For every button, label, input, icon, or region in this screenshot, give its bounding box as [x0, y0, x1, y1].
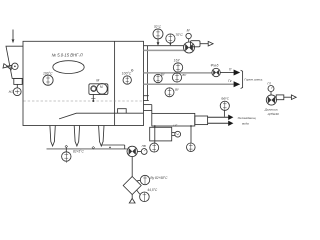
svg-text:44,5°С: 44,5°С [147, 188, 157, 192]
collection pipe [47, 145, 127, 149]
skimmer drive M-box [89, 79, 108, 95]
feed inlet arrow [12, 30, 15, 44]
cooling pipe 2 + arrow [208, 121, 234, 126]
tank bottom hopper legs (3) [50, 126, 104, 147]
instrument ВУ c6 [165, 87, 180, 96]
arrow П [220, 68, 240, 76]
P1 discharge arrow [200, 41, 213, 46]
svg-text:вода: вода [242, 122, 249, 126]
instrument TI3 82+5°C [62, 145, 85, 163]
instrument ПУ under HX [187, 126, 196, 152]
line B [144, 83, 234, 85]
right wall standpipe [143, 46, 148, 101]
svg-text:16У: 16У [174, 58, 181, 62]
svg-text:М: М [96, 79, 99, 83]
drain triangle [129, 195, 135, 204]
motor M1 [186, 29, 191, 42]
svg-text:Охлаждающ.: Охлаждающ. [238, 116, 257, 120]
pump P2 on collection line [127, 146, 137, 156]
valve V1 on chute [3, 63, 18, 70]
HX box [152, 113, 195, 127]
svg-text:ПВ: ПВ [142, 144, 146, 148]
svg-text:ФВ°С: ФВ°С [221, 96, 230, 100]
svg-text:82+5°С: 82+5°С [73, 150, 84, 154]
cooling water text [238, 116, 257, 125]
tank shell [23, 41, 144, 125]
smoke exhauster fan [266, 95, 284, 105]
НГ valve circle [172, 123, 181, 137]
svg-text:НЗ: НЗ [9, 90, 15, 94]
filter diamond under pump [123, 157, 141, 195]
svg-text:Ву 82+58°С: Ву 82+58°С [150, 176, 168, 180]
svg-text:НГ: НГ [173, 123, 177, 127]
svg-text:ЦЛ№40: ЦЛ№40 [268, 112, 279, 116]
cooling pipe 1 + arrow [208, 115, 234, 120]
svg-text:70°С: 70°С [154, 25, 162, 29]
svg-text:Гг: Гг [228, 79, 232, 83]
line A to pump Ф№5 [144, 72, 212, 74]
pump P1 [184, 41, 201, 53]
instrument 16У c3 [173, 58, 182, 73]
baffle and weir [59, 109, 143, 119]
arrow Гг [228, 79, 240, 87]
svg-text:№ 5.0-15 ВНГ-Л: № 5.0-15 ВНГ-Л [52, 53, 83, 58]
gauge TI5 at filter [137, 188, 158, 202]
instrument TI2 100° right compartment [122, 70, 133, 85]
svg-text:Ф№5: Ф№5 [211, 63, 219, 67]
svg-text:М: М [100, 85, 103, 89]
smoke exhauster gauge ГЛ [267, 82, 274, 95]
gauge ПВ [137, 144, 147, 154]
instrument ВУ c4 [154, 72, 166, 82]
instrument ТУ under HX [150, 126, 159, 152]
instrument ФВ [220, 96, 230, 116]
exhauster discharge arrow [284, 95, 296, 100]
hopper chute [6, 46, 23, 84]
HX lower box [150, 127, 172, 141]
bracket Горюч.смесь [241, 70, 263, 88]
level dashed line [23, 100, 143, 102]
svg-text:70°С: 70°С [175, 33, 183, 37]
exhauster text [264, 108, 279, 116]
float stem from M-box [91, 94, 95, 102]
gauge TI4 at filter [137, 175, 168, 184]
instrument ВУ c5 [172, 73, 187, 82]
instrument 70C c2 [166, 33, 184, 46]
cooling water stub [195, 116, 208, 125]
instrument TI1 100°C [43, 72, 53, 86]
pump P1 suction pipe [144, 46, 185, 51]
svg-text:100°С: 100°С [122, 72, 132, 76]
pump Ф№5 [211, 63, 221, 76]
tank partition [114, 41, 116, 125]
instrument 70C c1 [153, 25, 163, 46]
HX box stubs [144, 105, 152, 114]
manhole ellipse [53, 61, 84, 74]
svg-text:Горюч.смесь: Горюч.смесь [244, 78, 262, 82]
svg-text:М: М [187, 29, 190, 33]
instrument НЗ [9, 84, 22, 95]
